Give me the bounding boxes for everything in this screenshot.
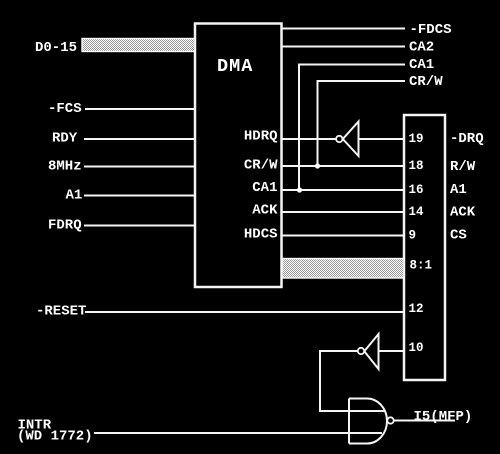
svg-text:R/W: R/W [450, 159, 476, 175]
svg-text:9: 9 [409, 229, 417, 243]
svg-text:HDRQ: HDRQ [244, 129, 278, 145]
svg-text:CA1: CA1 [252, 180, 277, 196]
svg-text:FDRQ: FDRQ [48, 218, 82, 234]
svg-text:16: 16 [409, 183, 424, 197]
svg-text:CS: CS [450, 228, 467, 244]
svg-text:(WD 1772): (WD 1772) [17, 429, 93, 445]
svg-text:HDCS: HDCS [244, 227, 278, 243]
svg-text:DMA: DMA [217, 56, 253, 77]
svg-text:ACK: ACK [252, 203, 278, 219]
svg-text:8MHz: 8MHz [48, 159, 82, 175]
svg-text:CA1: CA1 [409, 57, 434, 73]
svg-text:10: 10 [409, 341, 424, 355]
svg-text:RDY: RDY [52, 131, 78, 147]
svg-text:-FCS: -FCS [48, 101, 82, 117]
svg-text:I5(MFP): I5(MFP) [414, 409, 473, 425]
svg-text:D0-15: D0-15 [35, 40, 77, 56]
svg-text:CR/W: CR/W [244, 158, 278, 174]
svg-text:A1: A1 [66, 188, 83, 204]
svg-text:CR/W: CR/W [409, 74, 443, 90]
svg-text:18: 18 [409, 159, 424, 173]
svg-text:-RESET: -RESET [36, 304, 86, 320]
svg-text:12: 12 [409, 302, 424, 316]
svg-text:A1: A1 [450, 182, 467, 198]
svg-text:8:1: 8:1 [410, 259, 433, 273]
svg-text:19: 19 [409, 132, 424, 146]
svg-text:14: 14 [409, 205, 425, 219]
svg-text:CA2: CA2 [409, 40, 434, 56]
svg-text:ACK: ACK [450, 205, 476, 221]
svg-text:-DRQ: -DRQ [450, 131, 484, 147]
svg-text:-FDCS: -FDCS [410, 22, 452, 38]
